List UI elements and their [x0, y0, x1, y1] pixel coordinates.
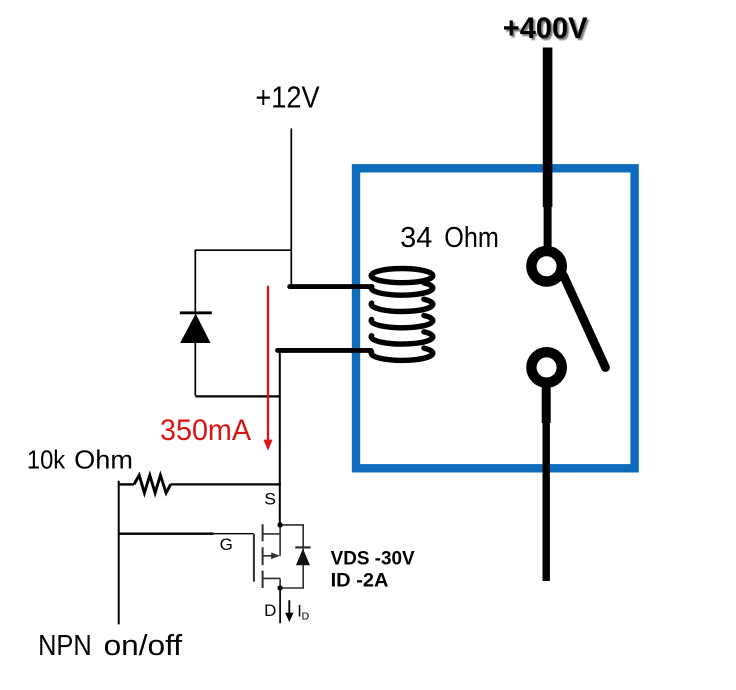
svg-text:G: G	[220, 535, 233, 554]
switch arm	[564, 276, 606, 368]
wire left branch vertical	[118, 481, 120, 625]
svg-text:350mA: 350mA	[160, 414, 251, 447]
Q1 drain lead	[263, 577, 281, 579]
svg-text:S: S	[264, 491, 276, 509]
resistor R1 zigzag	[134, 475, 171, 493]
wire +12V lead (vertical)	[290, 129, 292, 288]
wire diode anode lead	[194, 343, 196, 396]
wire coil return vertical (to MOSFET source)	[279, 350, 281, 525]
switch lower lead	[542, 387, 551, 423]
relay coil L1 (34 Ohm)	[371, 269, 433, 361]
svg-text:ID -2A: ID -2A	[331, 571, 389, 592]
body diode triangle	[296, 549, 310, 566]
wire drain lead down	[279, 588, 281, 623]
resistor R1 wire left	[119, 483, 134, 485]
wire gate horizontal (thin part)	[214, 533, 254, 535]
diode D1 cathode bar	[180, 311, 212, 314]
svg-text:D: D	[302, 611, 310, 623]
Q1 channel dashes	[262, 524, 264, 588]
MOSFET Q1	[254, 524, 303, 588]
Q1 gate bar	[253, 534, 255, 582]
wire diode bottom horizontal	[195, 395, 280, 397]
Q1 drain vertical	[279, 578, 281, 588]
wire gate horizontal (thick part)	[119, 533, 214, 535]
relay box (blue outline)	[356, 168, 635, 468]
body diode bar	[295, 546, 310, 548]
resistor R1 wire right	[171, 483, 281, 485]
diode D1 triangle	[180, 314, 210, 343]
switch top contact	[531, 251, 561, 281]
ID current arrow	[288, 600, 290, 614]
current arrow 350mA (red line)	[267, 286, 269, 440]
svg-text:NPNon/off: NPNon/off	[38, 630, 183, 662]
svg-text:VDS -30V: VDS -30V	[331, 549, 415, 570]
current arrow head	[263, 440, 272, 451]
svg-text:10kOhm: 10kOhm	[27, 447, 133, 475]
wire diode cathode lead	[194, 250, 196, 312]
coil bottom feed (thick wire)	[278, 348, 371, 353]
Q1 source lead	[263, 533, 281, 535]
junction dot source	[277, 522, 282, 527]
coil top feed (thick wire)	[290, 284, 372, 289]
Q1 body diode branch	[280, 525, 303, 588]
Q1 body lead	[263, 555, 273, 557]
wire +12V to diode (horizontal)	[195, 249, 292, 251]
switch bottom contact	[531, 352, 561, 382]
svg-text:+400V: +400V	[503, 12, 588, 45]
svg-text:34Ohm: 34Ohm	[400, 222, 499, 254]
svg-text:+12V: +12V	[255, 81, 319, 114]
Q1 source vertical	[279, 525, 281, 556]
svg-text:D: D	[264, 602, 276, 620]
switch common lead from +400V	[543, 48, 553, 208]
junction dot drain	[277, 585, 282, 590]
Q1 body arrow head	[271, 553, 280, 560]
